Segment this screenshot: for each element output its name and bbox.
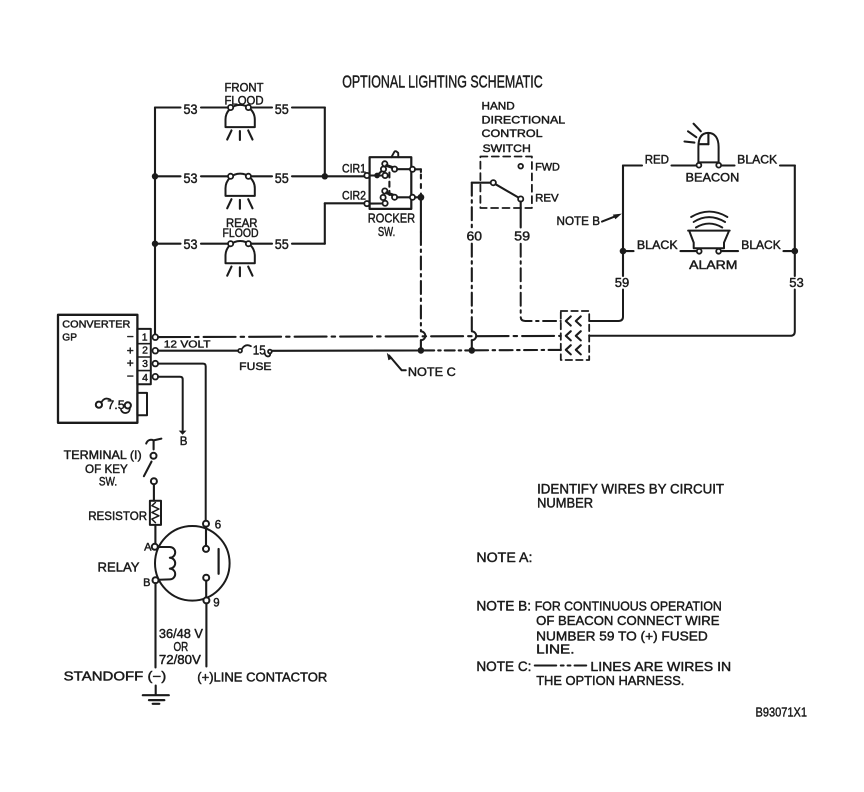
svg-text:RESISTOR: RESISTOR (88, 509, 147, 523)
svg-text:15: 15 (253, 344, 266, 358)
svg-text:OPTIONAL LIGHTING SCHEMATIC: OPTIONAL LIGHTING SCHEMATIC (342, 72, 543, 92)
svg-text:12 VOLT: 12 VOLT (164, 339, 211, 351)
svg-text:55: 55 (275, 171, 289, 186)
svg-text:FLOOD: FLOOD (223, 226, 259, 240)
svg-text:53: 53 (184, 102, 198, 117)
svg-text:FLOOD: FLOOD (225, 93, 264, 107)
svg-text:SWITCH: SWITCH (483, 143, 531, 155)
svg-text:−: − (127, 330, 134, 344)
svg-text:53: 53 (184, 171, 198, 186)
svg-text:CIR1: CIR1 (342, 164, 366, 176)
svg-text:B: B (143, 577, 150, 589)
svg-text:SW.: SW. (99, 475, 117, 489)
svg-text:LINE.: LINE. (536, 641, 574, 656)
svg-text:+: + (127, 356, 134, 370)
svg-text:NOTE C: NOTE C (408, 367, 456, 379)
svg-text:55: 55 (275, 102, 289, 117)
svg-text:ALARM: ALARM (689, 258, 737, 272)
svg-text:7.5: 7.5 (107, 398, 125, 412)
svg-text:GP: GP (62, 332, 77, 343)
svg-text:BLACK: BLACK (637, 238, 678, 252)
svg-text:BLACK: BLACK (737, 152, 777, 166)
svg-text:NOTE B: NOTE B (557, 216, 601, 228)
svg-text:FOR CONTINUOUS OPERATION: FOR CONTINUOUS OPERATION (535, 598, 722, 613)
svg-text:BLACK: BLACK (741, 238, 781, 252)
svg-text:REV: REV (535, 193, 559, 205)
svg-text:OF BEACON CONNECT WIRE: OF BEACON CONNECT WIRE (536, 613, 720, 628)
svg-text:STANDOFF (−): STANDOFF (−) (64, 670, 167, 684)
svg-text:59: 59 (615, 275, 630, 290)
svg-text:LINES ARE WIRES IN: LINES ARE WIRES IN (590, 659, 731, 674)
svg-text:A: A (144, 542, 152, 554)
svg-text:DIRECTIONAL: DIRECTIONAL (482, 114, 566, 126)
svg-text:RED: RED (645, 152, 670, 166)
svg-text:4: 4 (142, 372, 148, 384)
svg-text:BEACON: BEACON (686, 171, 740, 185)
svg-text:CIR2: CIR2 (342, 191, 366, 203)
svg-text:B: B (180, 436, 188, 448)
svg-text:FUSE: FUSE (239, 361, 271, 373)
svg-text:NUMBER: NUMBER (537, 495, 593, 510)
svg-text:THE OPTION HARNESS.: THE OPTION HARNESS. (536, 673, 684, 688)
svg-text:72/80V: 72/80V (159, 653, 202, 667)
svg-text:OF KEY: OF KEY (85, 462, 128, 476)
svg-text:CONTROL: CONTROL (482, 128, 543, 140)
svg-text:53: 53 (184, 237, 198, 252)
svg-text:FWD: FWD (535, 162, 560, 174)
svg-text:SW.: SW. (378, 224, 395, 239)
svg-text:59: 59 (514, 228, 530, 243)
svg-text:9: 9 (213, 598, 219, 610)
svg-text:NOTE B:: NOTE B: (476, 598, 531, 613)
svg-text:RELAY: RELAY (98, 560, 140, 575)
svg-text:55: 55 (275, 237, 289, 252)
svg-text:IDENTIFY WIRES BY CIRCUIT: IDENTIFY WIRES BY CIRCUIT (537, 481, 724, 496)
svg-text:NOTE C:: NOTE C: (476, 659, 531, 674)
svg-text:60: 60 (467, 228, 483, 243)
svg-text:3: 3 (142, 358, 148, 370)
svg-text:(+)LINE CONTACTOR: (+)LINE CONTACTOR (197, 671, 327, 685)
svg-text:NOTE A:: NOTE A: (476, 550, 532, 565)
svg-text:1: 1 (142, 331, 148, 343)
svg-text:OR: OR (174, 640, 189, 654)
svg-text:53: 53 (789, 275, 804, 290)
svg-text:B93071X1: B93071X1 (756, 704, 808, 719)
svg-text:36/48 V: 36/48 V (159, 627, 204, 641)
svg-text:−: − (127, 369, 134, 383)
svg-text:TERMINAL (I): TERMINAL (I) (64, 448, 142, 462)
svg-text:6: 6 (215, 520, 221, 532)
svg-text:HAND: HAND (482, 100, 515, 112)
svg-text:CONVERTER: CONVERTER (62, 319, 130, 330)
svg-text:2: 2 (142, 345, 148, 357)
